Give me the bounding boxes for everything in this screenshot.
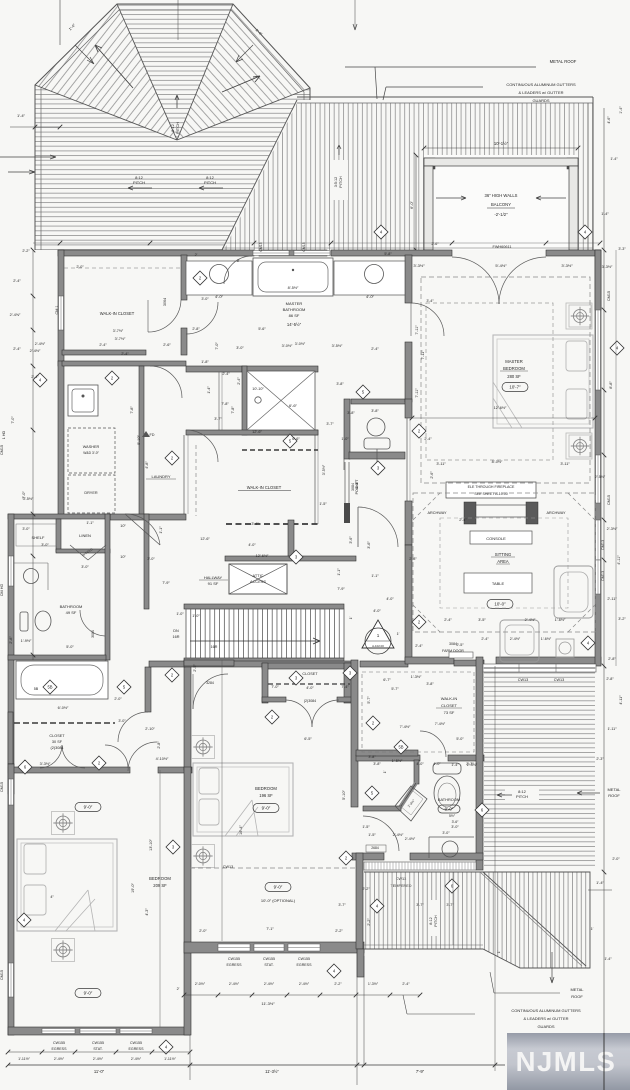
svg-text:CM HD: CM HD [0, 584, 4, 597]
svg-text:4′-0″: 4′-0″ [306, 686, 314, 690]
svg-text:1′-1″: 1′-1″ [86, 521, 94, 525]
roof top-right metal roof vertical hatch [224, 103, 593, 250]
wall below stairs main corridor [149, 661, 185, 667]
svg-text:6′-0½″: 6′-0½″ [58, 706, 69, 710]
svg-text:DN: DN [173, 629, 179, 633]
svg-text:73 SF: 73 SF [444, 710, 455, 715]
door arc bathroom3 [363, 816, 399, 851]
svg-text:EGRESS: EGRESS [297, 963, 313, 967]
svg-text:3′-7½″: 3′-7½″ [115, 337, 126, 341]
svg-text:2′-4½″: 2′-4½″ [393, 833, 404, 837]
wall WIC2 right thin [314, 434, 316, 524]
svg-text:5B: 5B [47, 685, 52, 690]
svg-text:2′: 2′ [195, 253, 198, 257]
svg-text:7′-11″: 7′-11″ [415, 388, 419, 398]
svg-text:METAL: METAL [570, 987, 584, 992]
door arc bathroom2 [80, 610, 105, 636]
svg-text:5B: 5B [398, 745, 403, 750]
svg-text:MASTER: MASTER [286, 301, 303, 306]
svg-text:3284: 3284 [206, 681, 214, 685]
svg-text:3′-0″: 3′-0″ [147, 557, 155, 561]
door arc laundry hall [150, 366, 182, 398]
svg-text:1′-5″: 1′-5″ [368, 833, 376, 837]
closet bedroom2 dashed rod [268, 683, 350, 685]
svg-text:2′-4″: 2′-4″ [415, 644, 423, 648]
svg-text:CM15: CM15 [0, 970, 4, 980]
laundry sink [68, 385, 98, 416]
svg-text:SITTING: SITTING [495, 552, 512, 557]
svg-text:4′-10½″: 4′-10½″ [156, 757, 169, 761]
svg-text:4′-3″: 4′-3″ [145, 908, 149, 916]
door arc WC pocket [343, 440, 345, 470]
svg-text:6′-0″: 6′-0″ [409, 200, 414, 209]
svg-text:5′-7″: 5′-7″ [367, 696, 371, 704]
svg-text:2′-4″: 2′-4″ [402, 982, 410, 986]
door arc top wall hall [224, 256, 252, 284]
svg-text:ROOF: ROOF [571, 994, 583, 999]
bottom dim long line [8, 1064, 505, 1066]
window slots east wall CM15 [596, 310, 601, 390]
side table with lamp [556, 639, 574, 657]
svg-text:WALK-IN CLOSET: WALK-IN CLOSET [100, 311, 135, 316]
svg-text:& LEADERS w/ GUTTER: & LEADERS w/ GUTTER [523, 1016, 568, 1021]
bathroom2 toilet [35, 611, 51, 631]
svg-text:1′-5″: 1′-5″ [362, 825, 370, 829]
svg-text:CW13: CW13 [223, 865, 234, 869]
svg-text:2′-6″: 2′-6″ [431, 242, 439, 246]
balcony height dim 6ft [415, 155, 417, 250]
misc vertical dim lines interior [159, 770, 161, 1027]
svg-text:1′: 1′ [349, 616, 353, 619]
window band bathroom3 south CW13 [364, 862, 476, 870]
dim arrows left margin [0, 155, 56, 159]
svg-text:2′-4″: 2′-4″ [222, 372, 230, 376]
svg-text:ARCHWAY: ARCHWAY [547, 511, 566, 515]
svg-text:4′-8″: 4′-8″ [145, 461, 149, 469]
wall bathroom3 top [356, 750, 418, 756]
svg-text:3′-3½″: 3′-3½″ [40, 762, 51, 766]
roof diamond marker 4 left [374, 225, 388, 239]
svg-text:LAUNDRY: LAUNDRY [151, 474, 170, 479]
master bath vanity left with sink [186, 261, 252, 295]
svg-text:1′-0″: 1′-0″ [341, 437, 349, 441]
svg-text:2′-8″: 2′-8″ [9, 636, 13, 644]
svg-text:5′-6″: 5′-6″ [258, 327, 266, 331]
svg-text:2′-0″: 2′-0″ [114, 697, 122, 701]
svg-text:16′-4″: 16′-4″ [239, 825, 243, 835]
svg-text:2′-4″: 2′-4″ [237, 377, 241, 385]
svg-text:3′-11″: 3′-11″ [560, 462, 570, 466]
svg-text:CM15: CM15 [607, 291, 611, 301]
door arc hall to WIC2 [186, 430, 218, 462]
svg-text:3′-5½″: 3′-5½″ [322, 464, 326, 475]
svg-text:WALK-IN: WALK-IN [441, 696, 458, 701]
svg-text:1′-4″: 1′-4″ [604, 957, 612, 961]
svg-text:3′-0″: 3′-0″ [22, 527, 30, 531]
svg-text:1′-5″: 1′-5″ [319, 502, 327, 506]
attic access hatch [229, 564, 287, 594]
window slots top wall CM15 [253, 251, 289, 256]
svg-text:1′-0″: 1′-0″ [192, 614, 200, 618]
svg-text:ELE THROUGH FIREPLACE: ELE THROUGH FIREPLACE [468, 485, 515, 489]
console table [470, 531, 532, 544]
svg-text:(2)3084: (2)3084 [304, 699, 316, 703]
wall sitting east CM13 slots [596, 560, 601, 594]
svg-text:CW155: CW155 [53, 1041, 65, 1045]
svg-text:3′-0″: 3′-0″ [81, 565, 89, 569]
roof top-right outline [297, 96, 593, 98]
svg-text:BALCONY: BALCONY [491, 202, 511, 207]
svg-text:PITCH: PITCH [133, 180, 145, 185]
wall WIC3 bottom [356, 755, 420, 761]
svg-text:7′-8″: 7′-8″ [130, 406, 134, 414]
svg-text:2′-8″: 2′-8″ [606, 677, 614, 681]
svg-text:2′-3½″: 2′-3½″ [607, 527, 618, 531]
sitting table [464, 573, 532, 593]
svg-text:BEDROOM: BEDROOM [503, 366, 525, 371]
svg-text:8′-0½″: 8′-0½″ [492, 460, 503, 464]
svg-text:ACCESS: ACCESS [250, 579, 266, 584]
svg-text:5′-7″: 5′-7″ [391, 687, 399, 691]
svg-text:CM15: CM15 [0, 782, 4, 792]
balcony dimension 10ft [424, 147, 578, 149]
svg-text:GUARDS: GUARDS [532, 98, 549, 103]
svg-text:ATTIC: ATTIC [253, 573, 264, 578]
svg-text:FARM DOOR: FARM DOOR [442, 649, 464, 653]
wall closet bedroom2 sides [262, 663, 268, 703]
svg-text:2′-4″: 2′-4″ [371, 347, 379, 351]
dim line right margin vertical [603, 108, 605, 1090]
svg-text:2′-5″: 2′-5″ [456, 643, 464, 647]
water closet toilet [367, 418, 385, 436]
svg-text:METAL: METAL [607, 787, 621, 792]
roof pitch arrow left wedge [95, 45, 133, 88]
svg-text:CW155: CW155 [263, 957, 275, 961]
svg-text:3′-8″: 3′-8″ [347, 411, 355, 415]
svg-text:ARCHWAY: ARCHWAY [428, 511, 447, 515]
svg-text:3′-7″: 3′-7″ [338, 903, 346, 907]
svg-text:2′: 2′ [177, 987, 180, 991]
svg-text:CW155: CW155 [130, 1041, 142, 1045]
svg-text:12′-6″: 12′-6″ [252, 430, 262, 434]
svg-text:2′-8″: 2′-8″ [192, 327, 200, 331]
bed bedroom1 [17, 839, 117, 931]
svg-text:2′-4½″: 2′-4½″ [525, 618, 536, 622]
svg-text:14′-5½″: 14′-5½″ [287, 322, 302, 327]
fireplace note box [446, 482, 536, 498]
roof southeast hip diagonal [483, 872, 586, 966]
door arc corridor to sitting [357, 507, 359, 547]
stair bottom rail [184, 658, 344, 662]
door arc sitting farm door [449, 652, 473, 658]
master bedroom tray dashed [426, 303, 553, 460]
svg-text:BATHROOM: BATHROOM [438, 797, 460, 802]
wall bedroom2 right / WIC3 left [351, 660, 358, 807]
svg-text:3′-5½″: 3′-5½″ [332, 344, 343, 348]
svg-text:3:5:12: 3:5:12 [334, 177, 338, 188]
bathroom3 sink [428, 837, 430, 858]
svg-text:2′-4″: 2′-4″ [13, 347, 21, 351]
door arc master bath west [186, 302, 218, 334]
wall sitting room south [405, 657, 454, 664]
balcony with 36in high walls [424, 155, 578, 250]
svg-text:CLOSET: CLOSET [441, 703, 458, 708]
svg-text:BATHROOM: BATHROOM [283, 307, 306, 312]
svg-text:2′-2″: 2′-2″ [367, 918, 371, 926]
svg-text:ROOF: ROOF [608, 793, 620, 798]
svg-text:13′-10″: 13′-10″ [149, 838, 153, 850]
svg-text:2′-4½″: 2′-4½″ [510, 637, 521, 641]
svg-text:2′-4½″: 2′-4½″ [405, 837, 416, 841]
window slot left wall [59, 296, 64, 330]
svg-text:1′-4″: 1′-4″ [610, 157, 618, 161]
WIC2 dashed rods [195, 445, 197, 516]
svg-text:7′-0″: 7′-0″ [11, 416, 15, 424]
svg-text:CM13: CM13 [601, 540, 605, 550]
svg-text:CLOSET: CLOSET [302, 672, 318, 676]
svg-text:3′-0″: 3′-0″ [201, 297, 209, 301]
roof east pitch label 8:12 [505, 788, 539, 800]
door french doors master top [452, 257, 499, 304]
door arc WIC3 [420, 731, 446, 757]
svg-text:3′-7″: 3′-7″ [416, 903, 424, 907]
wall hall stub vertical [288, 520, 294, 560]
svg-text:4′-0″: 4′-0″ [215, 294, 224, 299]
svg-text:4′-0″: 4′-0″ [416, 762, 424, 766]
master bedroom dim line 12-6 [412, 417, 595, 419]
svg-text:280 SF: 280 SF [507, 374, 521, 379]
sitting room dashed tray [413, 493, 595, 632]
svg-text:1′: 1′ [383, 770, 387, 773]
wall stairs hall left [144, 514, 149, 609]
svg-text:7′-11″: 7′-11″ [415, 325, 419, 335]
svg-text:AREA: AREA [497, 559, 509, 564]
roof diamond marker 4 right [578, 225, 592, 239]
svg-text:3′-8″: 3′-8″ [336, 382, 344, 386]
svg-text:3084: 3084 [91, 630, 95, 638]
svg-text:4′-11″: 4′-11″ [619, 695, 623, 705]
corridor edge lines by shower [218, 372, 220, 430]
svg-text:1′-4″: 1′-4″ [596, 880, 604, 885]
svg-text:5′-0″: 5′-0″ [456, 737, 464, 741]
linen bifold door diamond [70, 545, 106, 560]
svg-text:36″ HIGH WALLS: 36″ HIGH WALLS [485, 193, 518, 198]
wall corridor to bedroom1 vertical [145, 667, 151, 712]
roof southeast outline [364, 872, 590, 968]
svg-text:1′-1″: 1′-1″ [371, 574, 379, 578]
stair top rail [184, 604, 344, 609]
svg-text:8′-8″: 8′-8″ [609, 381, 613, 389]
svg-text:CM15: CM15 [607, 495, 611, 505]
svg-text:BEDROOM: BEDROOM [149, 876, 171, 881]
bathroom3 toilet [433, 763, 461, 774]
wall closet bedroom2 bottom [262, 697, 286, 702]
svg-text:1′-4″: 1′-4″ [601, 212, 609, 216]
svg-text:BEDROOM: BEDROOM [255, 786, 277, 791]
svg-text:1′-11½″: 1′-11½″ [18, 1057, 31, 1061]
svg-text:5B: 5B [34, 687, 39, 691]
svg-text:5′-0″: 5′-0″ [66, 645, 74, 649]
roof pitch arrow right wedge [222, 76, 260, 92]
window slots bedroom1 south CW155 [42, 1029, 75, 1034]
svg-text:7′-4½″: 7′-4½″ [435, 722, 446, 726]
svg-text:12′-6″: 12′-6″ [200, 537, 210, 541]
dim line right margin 2 [615, 250, 617, 666]
WIC2 dashed south opening [226, 523, 318, 525]
svg-text:11′-3½″: 11′-3½″ [261, 1001, 275, 1006]
door arcs closet hall double [40, 745, 62, 768]
svg-text:1′-0″: 1′-0″ [176, 612, 184, 616]
svg-text:2′-4⅝″: 2′-4⅝″ [10, 313, 21, 317]
WIC3 dashed rods [362, 672, 474, 752]
svg-text:TABLE: TABLE [492, 581, 505, 586]
svg-text:1′-4″: 1′-4″ [17, 113, 26, 118]
wall below WIC2 y516 [110, 514, 186, 520]
svg-text:10″: 10″ [120, 524, 126, 528]
bedroom1 ovals [75, 803, 101, 812]
svg-text:1′-5½″: 1′-5½″ [392, 759, 403, 763]
roof top-left outline inner [41, 10, 304, 250]
svg-text:2′-8″: 2′-8″ [608, 657, 616, 661]
bedroom2 ceiling lights [192, 736, 215, 759]
window slot left bathroom [9, 556, 14, 586]
svg-text:2′-4″: 2′-4″ [481, 637, 489, 641]
wall bump bedroom2 southeast [356, 853, 363, 949]
dimension line over NJMLS box [603, 1033, 605, 1090]
wall master bedroom west [405, 342, 412, 402]
svg-text:CM13: CM13 [601, 571, 605, 581]
sitting room inner dashed rect [440, 518, 568, 608]
roof top-left hip roof hatched area below apex [35, 85, 310, 250]
svg-text:EGRESS: EGRESS [52, 1047, 68, 1051]
svg-text:2′-4″: 2′-4″ [99, 343, 107, 347]
svg-text:3′-11″: 3′-11″ [436, 462, 446, 466]
svg-text:WALK-IN CLOSET: WALK-IN CLOSET [247, 485, 282, 490]
svg-text:2′-4″: 2′-4″ [424, 437, 432, 441]
svg-text:1′: 1′ [497, 950, 501, 953]
bedroom2 optional ovals [265, 883, 291, 892]
svg-text:7′-4½″: 7′-4½″ [400, 725, 411, 729]
svg-text:19′-0″: 19′-0″ [131, 883, 135, 893]
roof bottom edge line [222, 247, 593, 249]
svg-text:2′-3″: 2′-3″ [596, 757, 604, 761]
exterior wall left laundry [58, 361, 64, 517]
svg-text:FD: FD [149, 433, 154, 437]
svg-text:9′-0″: 9′-0″ [262, 806, 271, 811]
svg-text:86 SF: 86 SF [289, 313, 300, 318]
svg-text:2′-4½″: 2′-4½″ [299, 982, 310, 986]
svg-text:2′-2″: 2′-2″ [362, 887, 370, 891]
wall WC right / master bedroom west upper [405, 255, 412, 303]
svg-text:5′-4½″: 5′-4½″ [495, 263, 507, 268]
svg-text:3′-6″: 3′-6″ [452, 820, 460, 824]
svg-text:2′-4½″: 2′-4½″ [264, 982, 275, 986]
svg-text:3′-0″: 3′-0″ [451, 825, 459, 829]
wall WIC3 / closet walls bedroom2 top [184, 660, 234, 666]
bathroom2 sink [24, 569, 39, 584]
svg-text:1′: 1′ [591, 927, 594, 931]
wall hall y560 upper [225, 556, 356, 561]
svg-text:6′-5″: 6′-5″ [304, 737, 312, 741]
svg-text:PITCH: PITCH [175, 122, 180, 134]
svg-text:10′-0″: 10′-0″ [494, 602, 506, 607]
svg-text:3′-7½″: 3′-7½″ [113, 329, 124, 333]
svg-text:2′-4″: 2′-4″ [444, 618, 452, 622]
stairs treads [186, 609, 344, 658]
svg-text:2′-6″: 2′-6″ [430, 471, 434, 479]
wall bedroom2 bottom [184, 942, 364, 953]
svg-text:CW155: CW155 [298, 957, 310, 961]
door arc master bath to bedroom [411, 303, 444, 336]
svg-text:10′-1½″: 10′-1½″ [494, 141, 509, 146]
svg-text:2′-6″: 2′-6″ [163, 343, 171, 347]
svg-text:CM15: CM15 [0, 445, 4, 455]
svg-text:PITCH: PITCH [204, 180, 216, 185]
svg-text:CW155: CW155 [92, 1041, 104, 1045]
bedroom1 ceiling lights [52, 812, 75, 835]
WIC1 dashed rod [64, 267, 181, 269]
wall laundry right [139, 366, 144, 516]
svg-text:2′-4″: 2′-4″ [459, 518, 467, 522]
svg-text:3′-7″: 3′-7″ [214, 417, 222, 421]
svg-text:(2)3084: (2)3084 [50, 746, 63, 750]
svg-text:1′-4″: 1′-4″ [619, 106, 623, 114]
svg-text:4′-0″: 4′-0″ [366, 294, 375, 299]
roof top-left outline outer [35, 4, 310, 250]
WIC2 dashed north [242, 449, 318, 451]
svg-text:7′-8″: 7′-8″ [221, 402, 229, 406]
door arc bedroom1 [128, 742, 157, 771]
svg-text:1′-8″: 1′-8″ [201, 360, 209, 364]
svg-text:12′-6½″: 12′-6½″ [256, 554, 269, 558]
svg-text:CONTINUOUS ALUMINUM GUTTERS: CONTINUOUS ALUMINUM GUTTERS [511, 1008, 581, 1013]
wall tub room top [8, 655, 106, 660]
svg-text:6′-6″: 6′-6″ [289, 403, 298, 408]
svg-text:49 SF: 49 SF [66, 610, 77, 615]
pocket door panel [344, 503, 350, 523]
wall tub room bottom / closet top [8, 712, 13, 764]
door arc upper right hall [125, 514, 160, 545]
svg-text:3′-0″: 3′-0″ [442, 831, 450, 835]
dim line bedroom2 bottom [184, 994, 420, 996]
svg-text:GUARDS: GUARDS [537, 1024, 554, 1029]
wall bedroom1/bedroom2 shared [184, 660, 191, 770]
svg-text:5′-8″: 5′-8″ [384, 252, 392, 256]
svg-text:2′-0½″: 2′-0½″ [195, 982, 206, 986]
svg-text:DRYER: DRYER [84, 491, 97, 495]
wall laundry top [62, 361, 186, 366]
exterior wall left upper [58, 250, 64, 366]
wall shower left [242, 366, 247, 435]
svg-text:BATHROOM: BATHROOM [60, 604, 83, 609]
svg-text:SEE SHEET A-10.00: SEE SHEET A-10.00 [474, 492, 508, 496]
svg-text:3′-8″: 3′-8″ [373, 762, 381, 766]
svg-text:FWH60611: FWH60611 [493, 245, 512, 249]
sofa east [554, 566, 593, 618]
wall shelf top [8, 514, 110, 519]
svg-text:NJMLS: NJMLS [516, 1046, 617, 1077]
svg-text:8:12: 8:12 [429, 917, 433, 924]
svg-text:7′-8″: 7′-8″ [231, 406, 235, 414]
svg-text:3′-0″: 3′-0″ [236, 346, 244, 350]
svg-text:10′-0″ (OPTIONAL): 10′-0″ (OPTIONAL) [261, 898, 296, 903]
roof southeast vertical hatch extension [364, 872, 590, 968]
svg-text:3′-0″: 3′-0″ [118, 719, 126, 723]
dim top-left corner lines [59, 0, 61, 45]
svg-text:PITCH: PITCH [339, 176, 343, 188]
exterior wall left bedroom1 [8, 764, 14, 1035]
svg-text:4′-0″: 4′-0″ [386, 597, 394, 601]
